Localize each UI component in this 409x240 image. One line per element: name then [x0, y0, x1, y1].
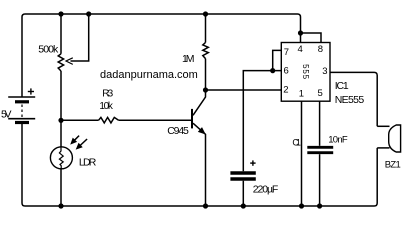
- svg-text:dadanpurnama.com: dadanpurnama.com: [100, 69, 198, 81]
- svg-text:5V: 5V: [1, 108, 12, 120]
- svg-text:1M: 1M: [182, 53, 195, 65]
- svg-text:7: 7: [284, 47, 289, 58]
- svg-text:6: 6: [284, 65, 289, 76]
- svg-text:IC1: IC1: [335, 80, 349, 92]
- svg-text:C1: C1: [292, 138, 301, 148]
- svg-text:555: 555: [301, 64, 310, 80]
- svg-text:10nF: 10nF: [328, 135, 348, 146]
- svg-text:BZ1: BZ1: [385, 159, 401, 170]
- svg-text:5: 5: [318, 88, 323, 99]
- svg-text:4: 4: [298, 44, 303, 55]
- svg-text:1: 1: [299, 89, 304, 100]
- svg-text:220µF: 220µF: [253, 183, 278, 195]
- svg-text:LDR: LDR: [79, 156, 97, 168]
- svg-text:R3: R3: [102, 88, 113, 99]
- svg-text:2: 2: [283, 85, 288, 96]
- svg-text:500k: 500k: [38, 44, 59, 56]
- svg-text:3: 3: [322, 66, 327, 77]
- svg-text:10k: 10k: [99, 101, 114, 112]
- svg-text:8: 8: [318, 44, 323, 55]
- svg-text:C945: C945: [167, 125, 189, 137]
- svg-text:NE555: NE555: [335, 94, 365, 106]
